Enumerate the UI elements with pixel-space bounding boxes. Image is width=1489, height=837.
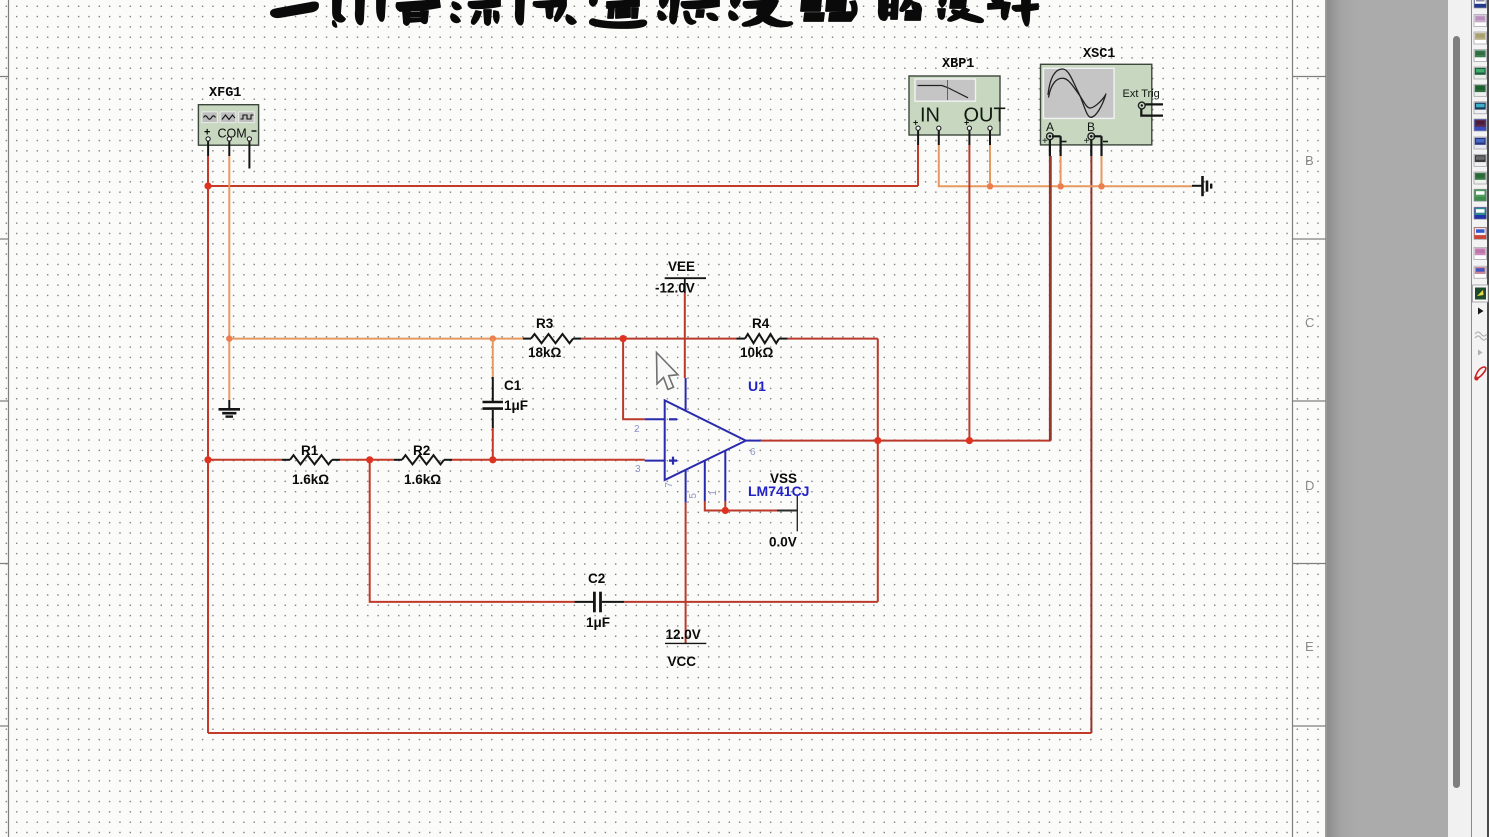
XSC1 pin stubs and brackets: [1050, 136, 1102, 156]
wire: XBP1 IN- down and right along y=186: [939, 145, 1192, 186]
opamp pin 2 stub: [645, 418, 665, 420]
svg-text:E: E: [1305, 639, 1314, 654]
junction dot XBP OUT- bus: [987, 183, 993, 189]
mouse cursor: [657, 353, 679, 390]
wire: orange horizontal y=339 to C1/R3: [229, 338, 523, 340]
junction dot VSS pins: [722, 507, 729, 514]
resistor R3: [523, 338, 531, 340]
svg-text:6: 6: [750, 447, 756, 458]
wire: pin5/pin1 to VSS: [705, 501, 777, 511]
opamp pin 6 stub: [746, 440, 761, 442]
wire: right feedback vertical x=878: [877, 339, 879, 602]
capacitor C2: [575, 592, 625, 613]
resistor R1: [282, 459, 290, 461]
svg-text:10kΩ: 10kΩ: [740, 345, 774, 360]
wire: XFG1 + down to junction: [207, 156, 209, 186]
svg-text:R4: R4: [752, 316, 770, 331]
resistor R2: [394, 459, 402, 461]
instrument XSC1 oscilloscope: [1041, 64, 1160, 147]
wire: VCC from pin7 down: [685, 503, 687, 643]
gray workspace outside sheet: [1327, 0, 1448, 837]
svg-text:VEE: VEE: [668, 259, 695, 274]
svg-text:5: 5: [688, 493, 699, 499]
junction dot C1 bottom: [489, 456, 496, 463]
svg-text:+: +: [1042, 136, 1048, 147]
svg-text:3: 3: [635, 464, 641, 475]
vertical scrollbar track: [1448, 0, 1471, 837]
junction dot output/XBP: [966, 437, 973, 444]
svg-text:1μF: 1μF: [504, 398, 528, 413]
instrument XFG1 function generator: [198, 105, 258, 146]
svg-text:1μF: 1μF: [586, 615, 610, 630]
svg-text:1.6kΩ: 1.6kΩ: [404, 472, 441, 487]
svg-text:VCC: VCC: [668, 654, 697, 669]
wire: R3 right to inverting input: [581, 338, 737, 340]
svg-text:7: 7: [664, 482, 675, 488]
toolbar grayed icon: [1475, 332, 1487, 340]
XBP1 pin stubs: [918, 131, 990, 146]
wire: opamp output net: [761, 156, 1051, 441]
toolbar boxed run icon: [1473, 285, 1489, 302]
toolbar dropdown triangle: [1478, 308, 1484, 315]
window right edge: [1487, 0, 1489, 837]
capacitor C1: [483, 377, 504, 428]
svg-text:A: A: [1046, 120, 1054, 134]
ext trig wires: [1141, 104, 1163, 115]
wire: right vertical up to XSC1 B+: [1090, 156, 1092, 733]
junction dot XSC A- bus: [1057, 183, 1063, 189]
toolbar grayed triangle: [1478, 350, 1483, 356]
opamp top pin stub: [685, 378, 687, 411]
opamp pin 7 stub: [685, 470, 687, 503]
wire: C2 right to right vertical: [624, 601, 878, 603]
svg-text:2: 2: [634, 424, 640, 435]
minus sign: [669, 418, 677, 420]
svg-text:Ext Trig: Ext Trig: [1123, 88, 1160, 100]
wire: junction down to - input: [623, 339, 645, 420]
wire: C1 lower lead red: [492, 428, 494, 460]
svg-text:C: C: [1305, 315, 1314, 330]
svg-text:1: 1: [708, 490, 719, 496]
opamp pin 1 stub: [724, 451, 726, 501]
resistor R4: [737, 338, 746, 340]
svg-text:+: +: [1084, 136, 1090, 147]
sheet left border line: [0, 0, 9, 837]
vertical scrollbar thumb: [1453, 36, 1460, 788]
svg-text:IN: IN: [920, 105, 940, 127]
right instruments toolbar: [1471, 0, 1489, 837]
wire: XSC1 A+ vertical: [1049, 156, 1051, 441]
XFG1 pin stubs: [208, 141, 249, 169]
svg-text:D: D: [1305, 478, 1314, 493]
junction dot R3 out: [620, 335, 627, 342]
VEE power symbol: [665, 278, 706, 293]
svg-text:12.0V: 12.0V: [666, 627, 701, 642]
svg-text:C2: C2: [588, 571, 605, 586]
title calligraphy band: [271, 0, 1038, 28]
instrument XBP1 bode plotter: [909, 76, 1006, 135]
junction dot XSC B- bus: [1098, 183, 1104, 189]
wire: XBP1 OUT+ vertical: [968, 145, 970, 441]
toolbar red signature icon: [1475, 367, 1486, 379]
wire: XSC1 A- down to orange bus: [1060, 156, 1062, 186]
sheet right margin column: [1293, 0, 1327, 837]
svg-text:R1: R1: [301, 443, 319, 458]
opamp pin 5 stub: [704, 461, 706, 502]
wire: feedback from R1R2 node down to C2: [370, 460, 575, 602]
junction dot XFG+/bus: [204, 182, 211, 189]
wire: XBP1 OUT- down to orange bus: [989, 145, 991, 186]
wire: C1 upper lead orange: [492, 339, 494, 377]
ground symbol under COM: [219, 400, 241, 417]
VSS on-page connector: [777, 496, 797, 531]
toolbar instrument icons: [1473, 0, 1489, 381]
svg-text:COM: COM: [218, 127, 247, 141]
svg-text:R3: R3: [536, 316, 554, 331]
svg-text:LM741CJ: LM741CJ: [748, 483, 809, 499]
wire: XSC1 B- down to orange bus: [1101, 156, 1103, 186]
svg-text:-12.0V: -12.0V: [655, 281, 695, 296]
svg-text:XBP1: XBP1: [942, 57, 974, 72]
junction dot R1-R2 feedback: [366, 456, 373, 463]
svg-text:XFG1: XFG1: [209, 86, 241, 101]
svg-text:18kΩ: 18kΩ: [528, 345, 562, 360]
wire: horizontal net y=186 red to XBP1 IN+: [208, 145, 918, 186]
plus sign: [669, 457, 677, 465]
svg-text:B: B: [1305, 153, 1314, 168]
wire: bottom horizontal input net: [208, 732, 1091, 734]
ground symbol top right: [1192, 176, 1211, 196]
junction dot COM corner: [226, 335, 232, 341]
svg-text:1.6kΩ: 1.6kΩ: [292, 472, 329, 487]
svg-text:U1: U1: [748, 378, 766, 394]
wire: R4 right lead to vertical: [787, 338, 877, 340]
opamp pin 3 stub: [645, 460, 665, 462]
svg-text:R2: R2: [413, 443, 430, 458]
svg-text:XSC1: XSC1: [1083, 47, 1115, 62]
svg-text:C1: C1: [504, 378, 522, 393]
junction dot R1 left: [204, 456, 211, 463]
wire: left vertical input net: [207, 186, 209, 733]
wire: R1 line input to opamp +: [208, 459, 282, 461]
junction dot C1 top orange: [490, 335, 496, 341]
wire: orange COM net vertical: [228, 156, 230, 400]
svg-text:B: B: [1087, 120, 1095, 134]
svg-text:OUT: OUT: [964, 105, 1006, 127]
wire: VEE supply down to opamp: [684, 293, 686, 378]
op-amp U1 LM741CJ: [645, 378, 761, 503]
svg-text:0.0V: 0.0V: [769, 535, 797, 550]
VCC power symbol: [665, 642, 706, 644]
junction dot output/feedback: [874, 437, 881, 444]
